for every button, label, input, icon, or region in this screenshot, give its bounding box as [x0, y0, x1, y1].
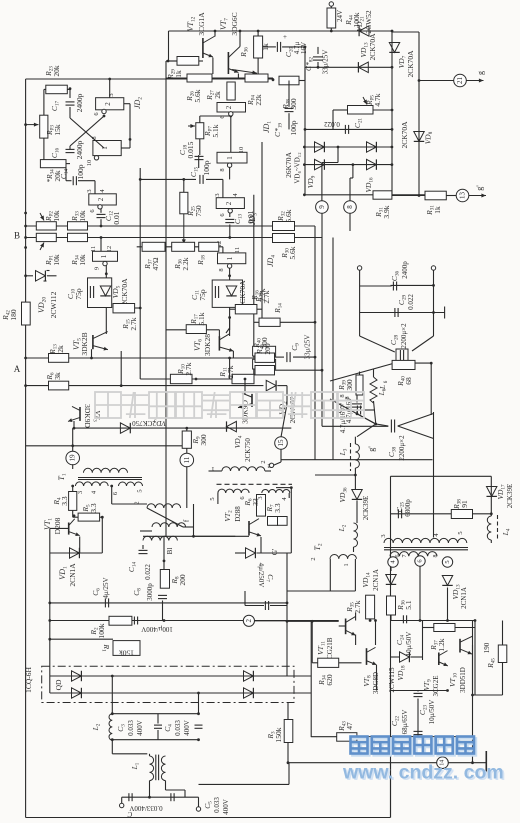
junction RP5 v392: [391, 109, 394, 112]
label VT10 type: [459, 667, 467, 693]
label JD3r: [248, 213, 259, 225]
wire y536 VT2 row: [143, 535, 235, 537]
label L6: [377, 388, 388, 396]
label R35 2.7k: [254, 290, 271, 303]
junction bus R6: [24, 384, 27, 387]
wire VD18 left: [391, 656, 400, 658]
wire T2 bot link: [287, 590, 330, 592]
label VD3: [154, 418, 166, 428]
wire tap top drop: [337, 147, 339, 163]
wire VT7 emitter drop: [237, 74, 239, 79]
label R13 2k: [48, 344, 65, 355]
label C15 value: [202, 160, 211, 175]
wire bottom frame right: [390, 763, 392, 818]
electrolytic C28: [400, 350, 403, 364]
wire L1 feed left: [111, 740, 113, 754]
wire v262: [261, 142, 263, 318]
svg-text:2: 2: [225, 105, 233, 109]
junction box2b six: [229, 115, 232, 118]
resistor R34b: [318, 658, 339, 667]
wire R37b left: [423, 627, 434, 629]
label R2 100k: [89, 623, 106, 638]
wire R29 row: [166, 60, 177, 62]
zener VD2cw: [266, 380, 276, 390]
label C38 value: [398, 435, 406, 461]
label C28 value: [400, 323, 408, 349]
label R43 47: [337, 721, 354, 732]
label VD5 type: [120, 278, 129, 306]
label R26 5.6k: [185, 89, 202, 102]
label JD4a pin6: [89, 209, 96, 213]
snubber box VD5b: [212, 280, 242, 307]
wire v350 circle8 drop: [349, 214, 351, 232]
svg-text:11: 11: [234, 247, 241, 253]
label C12: [104, 210, 115, 221]
pin JD2b-10: [94, 156, 98, 160]
wire L3 bottom: [354, 468, 356, 475]
label VT6 type: [203, 334, 212, 356]
capacitor C24: [403, 615, 406, 623]
wire v391 block: [390, 559, 392, 571]
wire C37 right: [362, 409, 375, 411]
svg-text:33μ/25V: 33μ/25V: [304, 335, 312, 360]
wire v475 drop: [474, 621, 476, 696]
wire C7 right: [270, 605, 287, 607]
diode VD10: [367, 142, 377, 152]
svg-text:5: 5: [444, 560, 451, 563]
label VT1: [43, 518, 54, 530]
watermark blue glyph shadow 0: [352, 738, 369, 755]
label C100u value: [141, 625, 173, 633]
wire left bus B-A: [25, 79, 27, 818]
wire R39 top stub: [359, 372, 361, 376]
wire X1 b: [412, 336, 434, 351]
watermark gray glyph 4: [203, 392, 229, 418]
junction y275 link: [228, 274, 231, 277]
label T1b pin1: [211, 465, 214, 472]
label VT1 type: [53, 517, 62, 534]
svg-text:4μ/250V: 4μ/250V: [257, 563, 265, 588]
wire VD18 right: [411, 656, 423, 658]
svg-text:5: 5: [209, 497, 216, 500]
label C4 v1: [174, 720, 182, 736]
capacitor C8: [158, 595, 167, 598]
wire C37 bottom stub: [356, 409, 358, 414]
junction bus VD20: [24, 274, 27, 277]
svg-text:5.1k: 5.1k: [211, 124, 220, 137]
label R1: [101, 643, 112, 652]
resistor R34a: [68, 233, 88, 241]
junction y695: [471, 694, 474, 697]
capacitor C10: [90, 286, 93, 298]
junction bus y247: [24, 246, 27, 249]
label C36: [390, 270, 401, 281]
label L6 sub: [384, 380, 389, 383]
wire VT2 base: [194, 535, 250, 537]
wire circle11 top: [186, 448, 188, 453]
wire R15 right: [135, 307, 141, 309]
resistor R30a: [273, 222, 295, 231]
label VT2 type: [234, 506, 242, 522]
label C19 value: [289, 120, 298, 135]
svg-text:2CW112: 2CW112: [49, 291, 58, 318]
junction v392 bot: [391, 66, 394, 69]
resistor R38: [451, 510, 472, 519]
wire R14 right: [280, 321, 315, 323]
label C1 name: [127, 810, 132, 818]
svg-text:1: 1: [226, 256, 234, 260]
label JD3b pin10: [238, 147, 245, 154]
wire C37 to X: [357, 414, 376, 424]
junction VT8 collector: [374, 619, 377, 622]
resistor R16: [235, 305, 257, 314]
label R46 200: [255, 343, 272, 355]
junction JD4b top: [100, 236, 103, 239]
label 24V: [336, 10, 344, 22]
label VD8 type: [400, 121, 409, 149]
label T1 pin3: [77, 491, 84, 494]
svg-text:2.7k: 2.7k: [184, 362, 193, 375]
label R10 2.7k: [176, 362, 193, 375]
zener VD21: [359, 26, 369, 36]
resistor R8: [160, 570, 169, 589]
wire out L stub: [121, 797, 123, 803]
wire T1b sec left drop: [217, 493, 219, 504]
resistor R11: [232, 374, 254, 383]
label C5: [203, 801, 214, 809]
wire R28 right: [299, 80, 305, 82]
wire R16 right link: [257, 308, 262, 310]
junction R25 top: [182, 178, 185, 181]
diode VD4: [227, 421, 237, 431]
svg-text:33μ/25V: 33μ/25V: [322, 50, 330, 75]
svg-text:9: 9: [94, 267, 101, 270]
watermark blue glyph 3: [414, 737, 431, 754]
svg-text:20k: 20k: [52, 65, 61, 77]
capacitor C11: [215, 286, 218, 298]
svg-text:1.2k: 1.2k: [437, 638, 446, 651]
svg-text:1: 1: [101, 146, 109, 150]
wire y695 link: [473, 694, 503, 696]
label f: [183, 519, 191, 522]
svg-text:5.6k: 5.6k: [288, 246, 297, 259]
watermark gray glyph 3: [176, 392, 202, 418]
core L1 line2: [158, 755, 160, 781]
junction R44 bottom: [330, 30, 333, 33]
pin T1b-2: [269, 463, 273, 467]
junction C21 left: [304, 128, 307, 131]
terminal circle 8: [344, 201, 357, 214]
svg-text:6: 6: [395, 555, 401, 558]
wire C14 drop: [65, 168, 67, 181]
wire T2 left drop: [329, 559, 331, 591]
watermark blue glyph shadow 2: [395, 738, 412, 755]
label VT11: [316, 641, 327, 655]
resistor R3 150k: [284, 720, 293, 743]
wire C3 stub bot: [157, 730, 159, 740]
wire RP5 vert: [332, 110, 334, 129]
svg-text:47Ω: 47Ω: [151, 257, 160, 271]
junction fb1: [111, 738, 114, 741]
pin output right: [196, 807, 200, 811]
junction Bl right: [192, 535, 195, 538]
diode VD13b: [442, 576, 452, 586]
wire C29 stub: [360, 312, 392, 314]
label JD3b num1: [226, 156, 234, 160]
wire v431 drop: [430, 363, 432, 415]
core T1 line2: [78, 479, 142, 481]
wire pot row1 right: [295, 225, 316, 227]
svg-text:0.022: 0.022: [407, 294, 415, 310]
wire C3 feed: [111, 676, 113, 714]
wire C9 right: [293, 356, 315, 358]
svg-text:3DK9D: 3DK9D: [83, 404, 92, 428]
junction v130: [129, 138, 132, 141]
winding feedback lower: [152, 523, 186, 527]
resistor R14: [259, 318, 280, 326]
label C18: [178, 144, 189, 155]
svg-text:2CK70A: 2CK70A: [406, 50, 415, 78]
label C3 v2: [136, 720, 144, 736]
svg-text:2k: 2k: [56, 345, 65, 353]
transistor VT7: [228, 47, 240, 75]
wire y129 cap row: [305, 128, 392, 130]
label JD2a pin3: [108, 93, 115, 96]
watermark blue glyph 4: [436, 737, 453, 754]
label VD20: [37, 297, 48, 313]
wire C22 top: [417, 691, 419, 692]
svg-text:3: 3: [214, 193, 221, 196]
label JD2b num1: [101, 146, 109, 150]
junction v419 g21: [418, 79, 421, 82]
label RP2 10k: [44, 210, 61, 222]
svg-text:620: 620: [325, 674, 334, 686]
wire R9 top stub: [186, 428, 188, 431]
label C11 75p: [190, 289, 207, 301]
svg-text:10μ/50V: 10μ/50V: [428, 700, 436, 725]
wire VD13 row: [305, 66, 392, 68]
resistor R9: [182, 431, 191, 448]
capacitor C4: [195, 725, 203, 728]
wire circle19 top: [72, 428, 74, 452]
junction C9 v315: [314, 356, 317, 359]
svg-text:21: 21: [456, 77, 464, 85]
label C82: [304, 57, 315, 71]
label JD2a pin6: [93, 112, 100, 116]
diode QD3: [244, 671, 254, 681]
wire C14 right: [78, 180, 95, 182]
svg-text:180: 180: [9, 309, 18, 321]
wire VT6 collector link: [226, 328, 230, 333]
resistor R37b: [434, 624, 455, 632]
label C23: [418, 704, 429, 715]
svg-text:1: 1: [226, 156, 234, 160]
wire QD rail top: [50, 675, 311, 677]
junction c29: [432, 311, 435, 314]
label VT8 type: [372, 672, 380, 694]
label RP3 15k: [45, 124, 62, 136]
wire y621 VT11 row: [287, 620, 339, 622]
electrolytic C82: [313, 57, 323, 60]
svg-text:300: 300: [199, 434, 208, 446]
junction c30: [432, 284, 435, 287]
zener VD20 tick2: [44, 280, 47, 282]
wire R44 bottom: [330, 28, 332, 31]
junction R31a left: [303, 193, 306, 196]
label C37 value real: [339, 407, 347, 434]
wire C29 end bar: [444, 307, 446, 319]
svg-text:5.6k: 5.6k: [284, 209, 293, 222]
svg-text:5.1k: 5.1k: [197, 312, 206, 325]
svg-text:D288: D288: [234, 506, 242, 522]
wire out R stub: [198, 797, 200, 806]
label VD4: [233, 435, 244, 448]
label R32 5.6k: [276, 209, 293, 222]
label C3 v1: [127, 720, 135, 736]
svg-text:47: 47: [345, 722, 354, 730]
junction C12 bottom: [100, 225, 103, 228]
watermark gray glyph 9: [338, 392, 364, 418]
resistor R39: [356, 375, 363, 395]
label L2b: [337, 524, 348, 532]
svg-text:3: 3: [257, 496, 264, 499]
wire tap bot drop: [352, 165, 354, 178]
junction R29 left: [167, 60, 170, 63]
junction y620 447: [446, 619, 449, 622]
svg-text:1CQ-6H: 1CQ-6H: [24, 667, 33, 693]
svg-text:0.022: 0.022: [324, 120, 340, 128]
diode VD14: [386, 575, 396, 585]
label C6: [91, 588, 102, 596]
label R8 200: [170, 574, 187, 586]
wire bridge bottom: [304, 164, 392, 166]
wire R25 top: [183, 179, 185, 192]
wire v287 z drop: [286, 386, 288, 404]
label VD13b type: [460, 587, 468, 609]
svg-text:16V: 16V: [300, 42, 308, 54]
label VD6-VD12: [294, 152, 302, 184]
pin c30 top: [431, 266, 435, 270]
svg-text:C: C: [127, 810, 132, 818]
label VD21: [355, 16, 366, 32]
svg-text:2: 2: [97, 197, 105, 201]
terminal circle 15: [275, 437, 288, 450]
junction R35b top: [369, 619, 372, 622]
svg-text:68: 68: [404, 377, 413, 385]
wire T1b right link: [276, 487, 291, 489]
transistor VT3 3DK9D: [68, 406, 80, 422]
label VDz type: [288, 396, 297, 423]
wire RP5 right: [373, 109, 392, 111]
pin JD3a-6: [229, 112, 233, 116]
wire fb lower link: [140, 530, 152, 532]
svg-text:3: 3: [86, 189, 93, 192]
svg-text:2.7k: 2.7k: [226, 365, 235, 378]
diode VD17: [486, 487, 496, 497]
junction rail1 x112: [111, 675, 114, 678]
wire R4 bottom: [72, 510, 74, 517]
wire C8 bottom: [162, 601, 164, 621]
junction JD2a top: [108, 78, 111, 81]
watermark gray glyph 1: [122, 392, 148, 418]
svg-text:B: B: [14, 231, 20, 241]
wire C12 bottom: [100, 219, 102, 226]
resistor R28: [279, 76, 299, 85]
svg-text:3: 3: [77, 491, 84, 494]
label C20 value b: [300, 42, 308, 54]
junction R14 v315: [314, 321, 317, 324]
wire C22 top link: [391, 690, 448, 692]
wire C29 row: [391, 312, 445, 314]
diode VD6g: [246, 548, 256, 558]
terminal circle 2: [243, 615, 254, 626]
wire tap jog: [322, 162, 338, 164]
svg-text:7: 7: [402, 555, 408, 558]
label C37 pin8: [344, 396, 351, 399]
wire v433 low: [433, 412, 435, 538]
potentiometer RP5: [348, 106, 374, 115]
wire circle6 drop: [419, 567, 421, 621]
winding T1 sec a: [75, 482, 108, 486]
transistor VT1a 3DK2B: [93, 332, 108, 351]
svg-text:8: 8: [433, 555, 439, 558]
wire X2 to L3: [357, 424, 376, 437]
watermark blue glyph 0: [351, 737, 368, 754]
svg-text:0.033/400V: 0.033/400V: [129, 804, 162, 812]
svg-text:3DD51D: 3DD51D: [459, 667, 467, 693]
svg-text:200: 200: [263, 343, 272, 355]
frame 1CQ-6H dash-dot box: [42, 666, 294, 702]
diode QD4: [244, 688, 254, 698]
wire C15 right: [206, 178, 223, 180]
label C22: [390, 715, 401, 726]
watermark gray glyph 6: [257, 392, 283, 418]
wire JD2a top: [109, 79, 111, 98]
diode VD11: [315, 159, 325, 169]
wire VD6 right: [257, 552, 292, 554]
wire C17 top stub: [69, 89, 71, 98]
pin JD4b-9: [103, 261, 107, 265]
svg-text:750: 750: [194, 205, 203, 217]
capacitor C19: [285, 108, 294, 111]
svg-text:13: 13: [459, 192, 467, 200]
wire y591 link: [287, 590, 355, 592]
wire R13 base link: [91, 349, 93, 358]
svg-text:68μ/65V: 68μ/65V: [401, 710, 409, 735]
label RP4 22k: [246, 94, 263, 106]
svg-text:8: 8: [219, 168, 226, 171]
svg-text:11: 11: [183, 456, 191, 463]
junction y762 left: [287, 761, 290, 764]
junction R43 right: [471, 735, 474, 738]
label L6: [378, 385, 387, 390]
watermark blue glyph 2: [393, 737, 410, 754]
capacitor C12: [97, 214, 106, 217]
capacitor C25: [398, 509, 401, 518]
label VD3 type: [132, 419, 156, 427]
wire circle2 right: [255, 620, 312, 622]
capacitor C14b: [139, 550, 148, 553]
wire VT4 collector: [244, 379, 246, 394]
wire v305: [304, 47, 306, 195]
label T1: [57, 473, 68, 480]
capacitor C3: [154, 725, 162, 728]
winding T2 sec right: [390, 552, 437, 557]
capacitor C36: [393, 282, 396, 291]
capacitor C37: [357, 406, 360, 415]
svg-text:2400p: 2400p: [75, 93, 84, 112]
label VT8: [362, 675, 373, 687]
